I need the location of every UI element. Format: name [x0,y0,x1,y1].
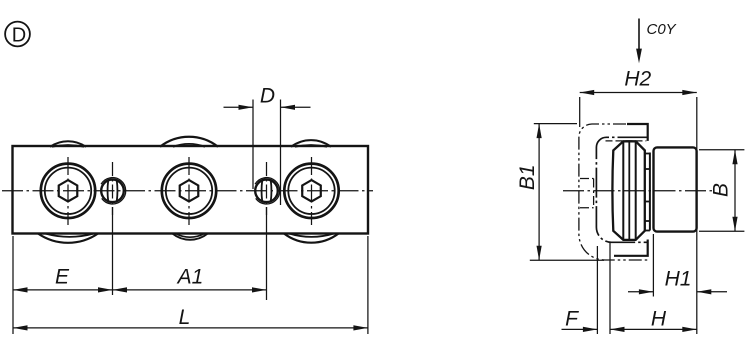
svg-text:A1: A1 [176,266,204,289]
extension line bar left (E/L) [12,236,14,334]
screw 1 hex socket [59,180,78,201]
ball pin 2 left meridian arc [261,181,264,201]
roller contour line right [635,141,637,240]
roller arc above screw 3 (outer) [291,140,331,147]
F extension line left [596,246,598,334]
svg-text:C0Y: C0Y [647,21,677,38]
screw 2 outer circle [162,164,216,218]
svg-text:E: E [55,266,70,289]
extension line ball pin 1 (E/A1) [112,207,114,295]
stud neck tick 5 [644,230,650,232]
roller arc below screw 2 (inner) [176,234,205,238]
screw 1 inner circle [45,168,91,214]
view label D (circled) [5,22,30,47]
roller contour line left [622,141,624,240]
roller contour line mid [628,142,630,239]
stud neck band right edge [649,153,651,231]
C0Y arrowhead [636,49,642,64]
top hidden edge [606,140,647,142]
ball pin 2 right meridian arc [270,181,273,201]
screw 3 outer circle [284,164,338,218]
screw 2 vertical centerline [188,157,190,225]
ball pin 1 right meridian arc [116,181,119,201]
hidden slot lines [580,179,594,208]
stud neck tick 2 [644,168,650,170]
dimension L line [13,327,368,329]
C0Y arrow shaft [638,19,640,51]
dimension D line left tail with arrow [224,106,254,108]
horizontal centerline (left view) [2,190,373,192]
roller arc below screw 3 (inner) [289,234,334,237]
B extension line bottom [699,230,744,232]
bar body (front view rectangle) [13,146,369,234]
screw 3 inner circle [288,168,334,214]
roller arc below screw 2 (outer) [172,234,207,240]
B1 extension line bottom [530,259,604,261]
svg-text:H2: H2 [624,67,651,90]
H2/H/H1 extension line right [696,97,698,334]
B1 dimension line [538,124,540,261]
svg-text:L: L [179,306,191,329]
svg-text:H: H [651,308,667,331]
roller octagon outline [612,141,644,240]
svg-text:D: D [260,85,275,108]
dimension D extension line right [280,100,282,206]
stud neck tick 1 [644,153,650,155]
roller arc above screw 2 (outer) [160,137,218,147]
B dimension line [734,150,736,231]
roller arc below screw 3 (outer) [284,234,339,243]
B1 extension line top [534,123,577,125]
roller arc above screw 1 (outer) [50,141,86,147]
B extension line top [699,149,744,151]
extension line bar right (L) [367,236,369,334]
ball pin 2 thread arc [255,178,280,204]
dimension E line [13,289,113,291]
rail phantom outline [579,124,648,260]
dimension D extension line left [252,100,254,190]
F/H extension line mid [609,242,611,334]
bracket body outline [596,137,647,242]
roller arc below screw 1 (inner) [45,234,94,237]
screw 3 vertical centerline [311,157,313,225]
roller arc above screw 2 (inner) [173,144,205,147]
screw 1 outer circle [41,164,95,218]
screw 3 hex socket [302,180,321,201]
svg-text:D: D [12,25,26,47]
stud neck tick 4 [644,220,650,222]
screw 1 vertical centerline [67,157,69,225]
H2 extension line left [579,97,581,127]
ball pin 1 thread arc [101,178,126,204]
roller arc above screw 3 (inner) [295,145,327,147]
svg-text:B: B [710,183,733,197]
ball pin 2 vertical centerline [266,162,268,215]
dimension A1 line [113,289,267,291]
cylinder body [654,147,697,231]
roller arc below screw 1 (outer) [38,234,98,243]
screw 2 inner circle [166,168,212,214]
svg-text:F: F [565,308,579,331]
dimension D line right tail with arrow [281,106,311,108]
svg-text:H1: H1 [665,268,692,291]
ball pin 1 left meridian arc [107,181,110,201]
bottom lug solid edge [614,240,648,256]
H dimension line [610,328,697,330]
H1 dimension line right tail [697,291,727,293]
svg-text:B1: B1 [516,164,539,190]
ball pin 1 circle [101,180,124,203]
top lug solid edge [627,124,648,141]
extension line ball pin 2 (A1) [266,207,268,300]
H1 dimension line left tail [628,291,653,293]
roller arc above screw 1 (inner) [52,145,84,147]
H2 dimension line [580,92,697,94]
ball pin 1 vertical centerline [112,162,114,215]
screw 2 hex socket [180,180,199,201]
stud neck tick 3 [644,201,650,203]
F dimension tail with arrow [562,328,598,330]
H1 extension line left [652,234,654,297]
ball pin 2 circle [255,180,278,203]
horizontal centerline (side view) [563,190,713,192]
